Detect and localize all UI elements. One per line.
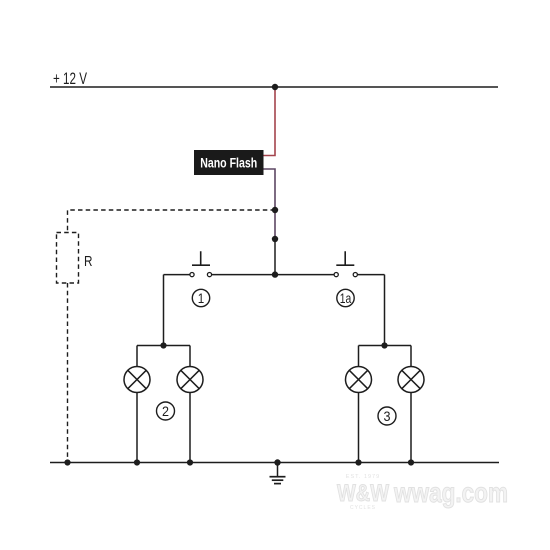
- resistor R (dashed outline): [57, 233, 79, 284]
- label circled 2: [157, 402, 175, 420]
- wire: lamp L3 stem top: [358, 346, 360, 367]
- ground symbol: [270, 463, 286, 484]
- ground rail: [50, 462, 499, 464]
- lamp L2: [177, 367, 203, 393]
- label circled 1: [192, 289, 209, 306]
- wire: switch rail left segment: [164, 274, 191, 276]
- switch 1 push actuator: [192, 251, 210, 265]
- wire: lamp L3 stem bottom: [358, 393, 360, 463]
- flasher unit Nano Flash: [194, 150, 264, 175]
- wire: lamp L1 stem bottom: [136, 393, 138, 463]
- switch 1a contact left: [334, 273, 338, 277]
- wire: right branch vertical: [384, 275, 386, 346]
- wire: lamp L4 stem bottom: [410, 393, 412, 463]
- wire: center vertical to switch rail: [274, 239, 276, 275]
- node: dashed tap junction: [272, 207, 278, 213]
- switch 1a contact right: [353, 273, 357, 277]
- svg-text:CYCLES: CYCLES: [350, 505, 376, 511]
- node: lamp L1 ground: [134, 459, 140, 465]
- node: lamp L3 ground: [355, 459, 361, 465]
- node: lamp L2 ground: [187, 459, 193, 465]
- svg-text:Nano Flash: Nano Flash: [200, 155, 257, 171]
- wire: left lamps header: [137, 345, 190, 347]
- svg-text:3: 3: [384, 408, 391, 424]
- switch 1 contact right: [207, 273, 211, 277]
- svg-text:1: 1: [198, 290, 205, 306]
- wire: left branch vertical: [163, 275, 165, 346]
- svg-text:R: R: [84, 253, 93, 270]
- svg-text:2: 2: [162, 403, 169, 419]
- wire: lamp L2 stem bottom: [189, 393, 191, 463]
- watermark W&W logo: [337, 474, 389, 511]
- switch 1a push actuator: [336, 251, 354, 265]
- node: top rail junction: [272, 84, 278, 90]
- label circled 3: [378, 407, 396, 425]
- wire: lamp L4 stem top: [410, 346, 412, 367]
- wire: lamp L2 stem top: [189, 346, 191, 367]
- dashed wire: tap to resistor R: [68, 210, 276, 233]
- switch 1 contact left: [190, 273, 194, 277]
- wire: switch rail middle segment: [212, 274, 334, 276]
- svg-text:W&W: W&W: [337, 480, 389, 507]
- wire: right lamps header: [359, 345, 412, 347]
- wire red: +12V rail to Nano Flash input: [264, 87, 276, 156]
- node: lamp L4 ground: [408, 459, 414, 465]
- node: switch rail center junction: [272, 271, 278, 277]
- node: left branch junction: [160, 342, 166, 348]
- lamp L3: [346, 367, 372, 393]
- svg-text:1a: 1a: [340, 290, 352, 306]
- node: purple wire end junction: [272, 236, 278, 242]
- node: R to ground rail: [64, 459, 70, 465]
- +12V supply rail: [50, 86, 498, 88]
- svg-text:wwag.com: wwag.com: [393, 477, 508, 508]
- lamp L1: [124, 367, 150, 393]
- node: ground symbol tap: [274, 459, 280, 465]
- svg-text:+ 12 V: + 12 V: [53, 69, 87, 88]
- wire: switch rail right segment: [358, 274, 385, 276]
- wire: lamp L1 stem top: [136, 346, 138, 367]
- lamp L4: [398, 367, 424, 393]
- dashed wire: resistor R to ground rail: [67, 283, 69, 463]
- label circled 1a: [337, 289, 354, 306]
- wire purple: Nano Flash output down: [264, 169, 276, 239]
- node: right branch junction: [381, 342, 387, 348]
